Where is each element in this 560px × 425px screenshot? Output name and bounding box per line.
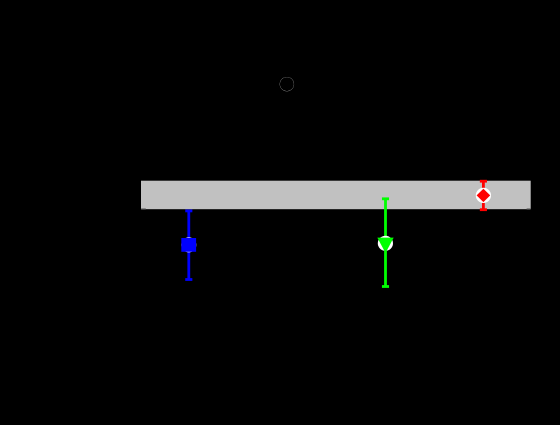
error bar, point 3 (green) (382, 199, 389, 287)
white halo circle, point 4 (476, 188, 491, 203)
green triangle-down marker, point 3 (377, 238, 393, 253)
red diamond marker, point 4 (477, 189, 491, 202)
blue square marker, point 2 (181, 238, 196, 252)
white halo circle, point 2 (181, 237, 196, 252)
error bar, point 2 (blue) (185, 211, 192, 280)
white halo circle, point 3 (378, 236, 393, 251)
black circle marker, point 1 (280, 77, 294, 91)
y-axis inward tick over band, right spine (527, 208, 531, 210)
uncertainty band (141, 181, 531, 210)
white halo circle, point 1 (280, 77, 294, 91)
y-axis inward tick over band, left spine (141, 208, 146, 210)
error bar, point 1 (black, invisible on black) (283, 55, 290, 114)
error bar, point 4 (red) (480, 181, 487, 210)
